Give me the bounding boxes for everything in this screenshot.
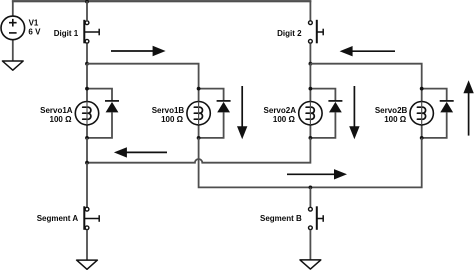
svg-text:100 Ω: 100 Ω — [161, 115, 184, 124]
svg-text:V1: V1 — [29, 18, 39, 27]
svg-text:Servo1B: Servo1B — [152, 106, 185, 115]
svg-text:Servo1A: Servo1A — [40, 106, 73, 115]
svg-text:Servo2A: Servo2A — [264, 106, 297, 115]
svg-text:Servo2B: Servo2B — [375, 106, 408, 115]
svg-text:Segment A: Segment A — [37, 214, 79, 223]
svg-text:100 Ω: 100 Ω — [50, 115, 73, 124]
svg-text:Digit 1: Digit 1 — [54, 29, 79, 38]
svg-text:Segment B: Segment B — [260, 214, 302, 223]
svg-text:100 Ω: 100 Ω — [384, 115, 407, 124]
svg-text:Digit 2: Digit 2 — [277, 29, 302, 38]
svg-text:6 V: 6 V — [28, 27, 41, 36]
svg-text:100 Ω: 100 Ω — [273, 115, 296, 124]
